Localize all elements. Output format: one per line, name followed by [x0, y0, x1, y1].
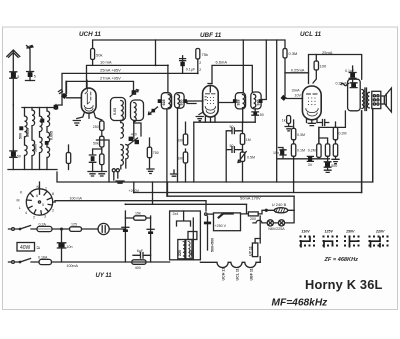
lamp 2 [278, 220, 284, 226]
wire bank to osc link [97, 140, 110, 182]
svg-text:100 mA: 100 mA [70, 197, 83, 201]
antenna A2 short [27, 46, 34, 81]
svg-text:500: 500 [331, 164, 337, 168]
wire UCL screen line [285, 72, 309, 74]
resistor 0.2M grid leak upper [293, 120, 295, 128]
wire tie x133 [133, 182, 135, 193]
capacitor mains filter [58, 243, 64, 247]
svg-text:125: 125 [188, 250, 192, 256]
wire bank top rail [22, 105, 56, 108]
coil IF2a [243, 95, 245, 108]
speaker magnet [372, 91, 381, 108]
capacitor 10n grid [280, 150, 284, 154]
capacitor 50 IF2 out [252, 109, 259, 122]
IF transformer 1 can B [175, 93, 185, 109]
svg-text:220V: 220V [375, 230, 385, 234]
svg-text:50: 50 [17, 155, 21, 159]
svg-text:50: 50 [260, 113, 264, 117]
mains rating box 40W [17, 243, 35, 252]
capacitor antenna series [11, 73, 16, 78]
wire UBF diode line [194, 121, 255, 123]
ground UCH pin [73, 121, 80, 126]
capacitor antenna lower [11, 152, 16, 157]
tube UCL pins [307, 119, 318, 124]
wire AC2 to transformer [52, 261, 170, 263]
svg-text:125: 125 [71, 222, 77, 226]
svg-text:UBF 11: UBF 11 [249, 268, 253, 280]
svg-text:+250 V: +250 V [215, 224, 227, 228]
svg-text:400: 400 [135, 266, 141, 270]
tube UCH11 envelope [81, 88, 96, 113]
svg-text:1M: 1M [246, 138, 251, 142]
tube UBF11 top cap [208, 84, 212, 93]
svg-text:50: 50 [230, 144, 234, 148]
capacitor 500 [325, 162, 330, 166]
svg-text:110V: 110V [302, 230, 311, 234]
wire det left riser [226, 131, 228, 182]
svg-text:150V: 150V [346, 230, 355, 234]
fuse 0.16A [39, 259, 52, 264]
output transformer box [348, 79, 361, 111]
svg-text:220: 220 [178, 250, 182, 256]
bump arc [253, 220, 262, 223]
svg-text:930: 930 [180, 100, 184, 106]
winding bridge box [188, 232, 197, 240]
wire UBF to IF2 [218, 102, 233, 104]
svg-text:5: 5 [34, 75, 36, 79]
dial lamp [98, 223, 109, 234]
svg-text:0.3M: 0.3M [289, 51, 298, 56]
wire osc coils down [121, 121, 134, 124]
svg-text:0.25µF: 0.25µF [336, 81, 348, 85]
coil L3 [40, 108, 43, 170]
IF transformer 2 can A [235, 93, 245, 109]
svg-text:10n: 10n [67, 245, 73, 249]
tube socket viewed from below [26, 189, 52, 215]
wire bus drop x266 [262, 40, 266, 100]
svg-text:L: L [19, 206, 21, 210]
wire antenna down + coupling cap [12, 105, 14, 151]
coil osc 1 [121, 101, 124, 121]
svg-text:0.005: 0.005 [50, 131, 54, 140]
wire 95V line [66, 81, 134, 95]
tube UCH pins [77, 113, 102, 121]
choke rectifier [274, 208, 288, 213]
oscillator coil box 2 [131, 100, 144, 121]
wire det right riser [238, 122, 242, 152]
svg-text:UY 11: UY 11 [248, 246, 252, 256]
svg-text:10V: 10V [295, 94, 302, 98]
wire B+ top bus [93, 40, 285, 49]
trimmer IF2 left [233, 99, 237, 103]
svg-text:10n: 10n [273, 151, 279, 155]
svg-text:U 240 B: U 240 B [272, 202, 287, 207]
wire socket to bus [40, 182, 56, 202]
resistor 75k [196, 49, 200, 60]
junction x61.5 [61, 228, 63, 230]
svg-text:Horny K 36L: Horny K 36L [305, 277, 383, 292]
grid cap blob UCH [66, 81, 68, 93]
trimmer IF1 right [183, 99, 187, 103]
svg-text:UY 11: UY 11 [96, 273, 113, 279]
wire bus y204.3 [125, 203, 246, 205]
potentiometer 0.5M volume [240, 152, 244, 162]
coil L2 [32, 108, 35, 170]
speaker voice coil [381, 96, 385, 104]
power transformer box [170, 211, 201, 260]
svg-text:100mA: 100mA [67, 264, 79, 268]
svg-text:1k: 1k [282, 119, 286, 123]
svg-text:928: 928 [236, 100, 240, 106]
svg-text:50mA 170V: 50mA 170V [240, 196, 261, 201]
tube UBF11 internals [206, 93, 216, 95]
coil IF2b [254, 94, 256, 107]
svg-text:0.5M: 0.5M [247, 156, 255, 160]
wire vert x150 [150, 216, 152, 262]
wire tie x152 [152, 182, 154, 204]
resistor 750 [149, 138, 151, 169]
wire IF2a bottom [242, 109, 244, 122]
svg-text:N6V/225A: N6V/225A [268, 227, 285, 231]
tube UBF pins [205, 116, 215, 122]
svg-text:50k: 50k [96, 53, 102, 58]
resistor 0.3M [283, 49, 287, 59]
IF transformer 1 can A [161, 93, 171, 109]
wire riser x193.8 [193, 122, 195, 182]
ground T mid [171, 170, 178, 176]
thick heater link [219, 214, 233, 218]
electrolytic b [147, 228, 154, 230]
terminal 250V [205, 213, 207, 215]
svg-text:6.6mA: 6.6mA [216, 60, 228, 65]
resistor 50k [91, 49, 95, 60]
coil L1 antenna [25, 108, 28, 170]
svg-text:ZF = 468KHz: ZF = 468KHz [324, 257, 359, 263]
trimmer L1 [19, 126, 23, 130]
svg-text:0.03: 0.03 [113, 108, 117, 115]
svg-text:250: 250 [93, 125, 99, 129]
wire AF coupling line [277, 158, 330, 160]
svg-text:3mA: 3mA [292, 88, 301, 93]
resistor 250 [100, 121, 104, 130]
transformer core [365, 88, 367, 111]
trimmer IF1 left [158, 99, 162, 103]
svg-text:15k: 15k [135, 212, 141, 216]
switch AC1 [20, 226, 37, 230]
wire IF1 to UBF grid [187, 101, 203, 104]
trimmer top right of bank [54, 105, 59, 110]
heater scallops [200, 262, 260, 267]
svg-text:500+500: 500+500 [211, 238, 215, 252]
capacitor UCL cathode [317, 120, 329, 126]
svg-text:8: 8 [52, 192, 54, 196]
wire winding top tap [177, 211, 191, 226]
wire transformer down [361, 111, 363, 193]
coil osc 4 lower [121, 145, 124, 170]
lamp 1 [267, 220, 273, 226]
wire x294 drop [293, 196, 295, 210]
svg-text:UCH 11: UCH 11 [79, 31, 101, 38]
ground bus coil bank [8, 169, 57, 171]
svg-text:≈: ≈ [37, 245, 41, 252]
ground UBF left [196, 112, 203, 121]
speaker cone [384, 88, 391, 112]
svg-text:750: 750 [153, 151, 159, 155]
svg-text:0.16A: 0.16A [38, 255, 48, 259]
svg-text:4: 4 [25, 211, 27, 215]
resistor fb lower [335, 140, 337, 144]
wire B+ bus y192.5 [134, 192, 362, 194]
trimmer L4 [45, 141, 49, 145]
resistor 50k osc [100, 136, 104, 147]
wire 10mA line [87, 65, 168, 88]
svg-text:25mA +85V: 25mA +85V [100, 68, 121, 73]
svg-text:0.2M: 0.2M [308, 149, 316, 153]
wire IF1 primary top [167, 65, 169, 92]
tube UBF11 envelope [203, 86, 219, 118]
svg-text:MF=468kHz: MF=468kHz [272, 298, 329, 309]
coil IF1a [168, 95, 170, 108]
svg-text:3: 3 [44, 215, 46, 219]
tube UCH11 internals [85, 80, 90, 104]
terminal AC1 [12, 228, 15, 231]
svg-text:5: 5 [42, 203, 44, 207]
squiggle wire [341, 83, 349, 86]
electrolytic a [122, 226, 129, 228]
capacitor 0.25uF inside [351, 83, 356, 87]
resistor cathode UCH left [68, 145, 70, 170]
svg-text:0.3M: 0.3M [297, 133, 305, 137]
resistor 200 [248, 212, 258, 216]
wire speaker down [372, 109, 374, 182]
svg-text:0.25mA: 0.25mA [291, 67, 305, 72]
tube UCL11 envelope [302, 86, 321, 120]
resistor 1M a [185, 122, 187, 152]
ground UCL center pin [308, 123, 315, 125]
IF transformer 2 can B [251, 92, 261, 109]
capacitor 50 det b [228, 147, 238, 153]
wire wrap right inner [361, 111, 363, 193]
svg-text:500: 500 [18, 133, 22, 139]
wire bus drop x276 long [276, 40, 278, 182]
svg-text:27mA +95V: 27mA +95V [100, 75, 121, 80]
resistor AF b [325, 144, 329, 156]
svg-text:3900: 3900 [34, 144, 38, 152]
coil IF1b [177, 95, 179, 108]
svg-text:2: 2 [199, 61, 201, 65]
terminal circles osc [112, 169, 115, 172]
svg-text:2: 2 [33, 216, 35, 220]
resistor 1k cathode [100, 154, 104, 165]
wire IF1 sec bottom long [177, 108, 179, 182]
wire x206 drop [205, 201, 207, 211]
winding P2 [186, 240, 192, 259]
svg-text:40W: 40W [20, 245, 31, 251]
svg-text:75k: 75k [202, 52, 208, 57]
junction dot [265, 209, 267, 211]
capacitor 3V on AF line [308, 157, 312, 161]
tuning arrow IF1 [149, 107, 158, 115]
resistor fb upper [333, 127, 337, 139]
wire vert x125 [124, 211, 126, 262]
rectifier cell box [214, 213, 241, 231]
svg-text:50: 50 [230, 125, 234, 129]
resistor UY right [259, 216, 261, 243]
svg-text:0.005: 0.005 [26, 128, 30, 137]
transformer primary coil [362, 90, 364, 109]
svg-text:0.1M: 0.1M [297, 149, 305, 153]
svg-text:10 mA: 10 mA [100, 60, 112, 65]
wire bus drop x243 [242, 40, 244, 93]
resistor 400 [132, 260, 146, 265]
svg-text:5: 5 [17, 75, 19, 79]
svg-text:125V: 125V [325, 230, 334, 234]
trimmer L3 [40, 119, 44, 123]
capacitor 50n cathode [89, 149, 101, 172]
transformer secondary coil [367, 92, 369, 108]
wire bus y196 [168, 182, 295, 196]
trimmer IF2 right [259, 99, 263, 103]
resistor 0.2M AF a [318, 127, 320, 158]
oscillator coil box 1 [111, 98, 126, 121]
svg-text:0.1µF: 0.1µF [186, 68, 196, 72]
wire UCH cathode chain [101, 120, 103, 172]
padder trimmers osc [129, 137, 133, 141]
resistor 15k [125, 217, 150, 219]
socket pins [27, 190, 52, 215]
svg-text:6: 6 [36, 194, 38, 198]
svg-text:3V: 3V [308, 163, 313, 167]
svg-text:UCL 11: UCL 11 [300, 31, 322, 38]
capacitor A2 [28, 72, 33, 77]
svg-text:50k: 50k [93, 141, 99, 145]
coil L4 [47, 108, 50, 170]
svg-text:200: 200 [250, 217, 256, 221]
wire osc mid connections [134, 123, 141, 139]
junction dots [155, 65, 157, 67]
wire heater bus y200.7 [55, 200, 206, 202]
wire IF1a bottom [166, 109, 168, 196]
wire UCL plate line [309, 55, 362, 84]
antenna A1 [7, 50, 20, 105]
wire grid leak top junction [320, 138, 328, 144]
wire UBF plate feed [212, 65, 252, 92]
ground bars osc [114, 172, 124, 183]
trimmer osc top [132, 90, 137, 95]
coil osc 2 [134, 103, 136, 122]
wire 85V screen line [62, 73, 198, 105]
svg-text:1M: 1M [178, 157, 183, 161]
svg-text:0.2A: 0.2A [39, 222, 47, 226]
svg-text:UBF 11: UBF 11 [200, 32, 222, 39]
wire wrap right outer [372, 109, 374, 182]
resistor 0.1M grid leak lower [293, 140, 295, 144]
winding P1 [178, 240, 185, 259]
capacitor 50 det a [228, 128, 238, 134]
resistor det 1M [240, 134, 244, 145]
terminal AC2 [12, 261, 15, 264]
svg-text:M: M [17, 199, 20, 203]
electrolytic 50+50 [207, 216, 209, 250]
svg-text:1M: 1M [178, 139, 183, 143]
wire chassis bus y182 [57, 172, 373, 182]
svg-text:UCL 11: UCL 11 [236, 268, 240, 280]
wire x246 drop [246, 204, 248, 214]
ground bar UCH chain [88, 172, 107, 177]
fuse 0.2A [37, 226, 52, 231]
svg-text:0.2M: 0.2M [339, 132, 347, 136]
resistor 125 [70, 227, 82, 232]
resistor 1M b [183, 152, 187, 163]
wire bus drop x155 [155, 40, 157, 65]
resistor 1k cathode UCL [290, 122, 307, 124]
svg-text:2: 2 [199, 68, 201, 72]
svg-text:928: 928 [162, 100, 166, 106]
wire feedback top [319, 111, 346, 144]
svg-text:UCH 11: UCH 11 [222, 268, 226, 281]
wire transformer right vert [255, 239, 260, 244]
switch AC2 [20, 259, 39, 263]
svg-text:2x4: 2x4 [173, 212, 179, 216]
svg-text:2: 2 [52, 209, 54, 213]
grid cap blob UCL [281, 95, 287, 101]
svg-text:1: 1 [45, 187, 47, 191]
capacitor 0.1uF screen bypass [180, 56, 186, 74]
svg-text:100: 100 [320, 64, 327, 69]
tube UCL11 internals [307, 93, 318, 95]
coil osc 3 lower [121, 123, 124, 139]
resistor 100 screen [315, 55, 317, 62]
